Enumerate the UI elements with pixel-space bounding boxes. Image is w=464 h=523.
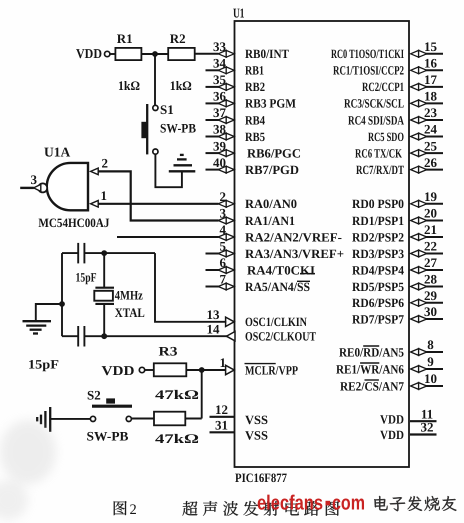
svg-text:RC0 T1OSO/T1CKI: RC0 T1OSO/T1CKI [331, 47, 404, 61]
svg-text:27: 27 [424, 255, 438, 270]
svg-text:elecfans: elecfans [257, 491, 323, 514]
wire junction to R4 [201, 370, 203, 419]
pin 25 RC6 TX/CK (right side) [425, 152, 444, 154]
svg-text:U1: U1 [233, 6, 245, 21]
svg-text:RE2/CS/AN7: RE2/CS/AN7 [340, 379, 405, 393]
wire OSC1 net to pin13 [155, 253, 226, 322]
ground bar2 [44, 411, 46, 428]
wire rail to C1 [62, 252, 78, 254]
VDD terminal circle bottom [139, 367, 144, 372]
wire [95, 287, 114, 289]
overline CS (RE2) [365, 379, 379, 381]
pin 21 RD2/PSP2 (right side) [425, 236, 444, 238]
wire [103, 253, 105, 287]
svg-text:23: 23 [424, 105, 438, 120]
svg-text:9: 9 [427, 354, 434, 369]
scan smudge bottom-left [0, 420, 56, 484]
overline MCLR (pin1) [245, 363, 276, 365]
pin 27 RD4/PSP4 (right side) [425, 269, 444, 271]
pin 35 RB2 (left side) [206, 86, 220, 88]
ground bar1 [169, 170, 196, 172]
pin 3 RA1/AN1 (left side) [218, 217, 226, 224]
pin 18 RC3/SCK/SCL (right side) [425, 102, 444, 104]
pin 16 RC1/T1OSI/CCP2 (right side) [425, 69, 444, 71]
pin 24 RC5 SDO (right side) [425, 136, 444, 138]
svg-text:RC4 SDI/SDA: RC4 SDI/SDA [348, 113, 405, 127]
svg-text:2: 2 [220, 189, 227, 204]
resistor R1 [115, 48, 141, 60]
terminal circle [153, 149, 158, 154]
svg-text:VDD: VDD [380, 413, 404, 427]
svg-text:RD3/PSP3: RD3/PSP3 [352, 247, 404, 261]
svg-text:1: 1 [101, 188, 108, 203]
svg-text:RD2/PSP2: RD2/PSP2 [352, 230, 404, 244]
svg-text:RB6/PGC: RB6/PGC [247, 146, 301, 160]
svg-text:7: 7 [220, 272, 227, 287]
svg-text:S1: S1 [160, 102, 174, 117]
NAND gate U1A body [47, 163, 88, 210]
pin 39 RB6/PGC (left side) [206, 152, 220, 154]
wire R3 to pin1 [186, 369, 226, 371]
svg-text:12: 12 [215, 402, 228, 417]
svg-text:RC2/CCP1: RC2/CCP1 [362, 80, 404, 94]
pin 1 MCLR/VPP (left side) [226, 365, 235, 374]
svg-text:R3: R3 [159, 344, 179, 359]
svg-text:28: 28 [424, 272, 438, 287]
svg-text:XTAL: XTAL [115, 305, 145, 320]
svg-text:RD6/PSP6: RD6/PSP6 [352, 296, 404, 310]
svg-text:RC6 TX/CK: RC6 TX/CK [355, 146, 402, 160]
svg-text:25: 25 [424, 138, 438, 153]
svg-text:OSC1/CLKIN: OSC1/CLKIN [245, 315, 307, 329]
wire [146, 104, 148, 154]
switch S2 button [106, 398, 115, 403]
svg-text:13: 13 [207, 307, 221, 322]
pin 8 RE0/RD/AN5 (right side) [425, 351, 444, 353]
svg-text:29: 29 [424, 288, 438, 303]
pin 37 RB4 (left side) [206, 119, 220, 121]
wire C1 to OSC1 net [84, 252, 155, 254]
svg-text:18: 18 [424, 89, 438, 104]
svg-text:RD7/PSP7: RD7/PSP7 [352, 312, 405, 326]
svg-text:34: 34 [213, 56, 227, 71]
resistor R3 [154, 363, 187, 376]
wire junction to S1 [154, 54, 156, 105]
svg-text:3: 3 [31, 172, 38, 187]
U1A output bubble [38, 183, 47, 192]
svg-text:4: 4 [220, 222, 227, 237]
svg-text:RE0/RD/AN5: RE0/RD/AN5 [339, 345, 404, 359]
svg-text:MC54HC00AJ: MC54HC00AJ [38, 216, 110, 230]
svg-text:VDD: VDD [380, 428, 404, 442]
wire U1A pin2 to IC RA1 [98, 171, 218, 220]
pin 31 VSS (left side) [210, 431, 235, 433]
pin 30 RD7/PSP7 (right side) [425, 318, 444, 320]
pin 5 RA3/AN3/VREF+ (left side) [206, 253, 220, 255]
pin 36 RB3 PGM (left side) [206, 102, 220, 104]
wire [92, 405, 132, 408]
svg-text:RA3/AN3/VREF+: RA3/AN3/VREF+ [245, 247, 344, 261]
pin 28 RD5/PSP5 (right side) [425, 286, 444, 288]
wire [141, 53, 168, 55]
svg-text:RC1/T1OSI/CCP2: RC1/T1OSI/CCP2 [333, 64, 404, 78]
ground bar3 [40, 415, 42, 425]
IC U1 PIC16F877 body [235, 21, 410, 467]
svg-text:RB7/PGD: RB7/PGD [245, 163, 299, 177]
junction C2/XTAL bottom [101, 333, 107, 339]
terminal circle [126, 416, 131, 421]
crystal Y1 body 4MHz [94, 291, 113, 301]
svg-text:38: 38 [213, 122, 227, 137]
svg-text:1kΩ: 1kΩ [170, 78, 192, 93]
wire [83, 243, 85, 264]
svg-text:36: 36 [213, 89, 227, 104]
ground bar1 [49, 407, 51, 432]
svg-text:14: 14 [207, 321, 221, 336]
svg-text:OSC2/CLKOUT: OSC2/CLKOUT [245, 330, 316, 344]
junction rail/ground [59, 301, 65, 307]
svg-text:35: 35 [213, 72, 227, 87]
svg-text:16: 16 [424, 56, 438, 71]
svg-text:RC5 SDO: RC5 SDO [368, 130, 404, 144]
ground bar3 [30, 329, 42, 331]
pin 34 RB1 (left side) [206, 69, 220, 71]
svg-text:RD4/PSP4: RD4/PSP4 [352, 263, 405, 277]
svg-text:R2: R2 [170, 31, 186, 46]
pin 14 OSC2/CLKOUT (left side) [226, 332, 235, 341]
svg-text:SW-PB: SW-PB [87, 429, 129, 444]
wire R4 to junction [185, 418, 201, 420]
ground bar4 [33, 332, 38, 334]
svg-text:5: 5 [220, 239, 227, 254]
svg-text:RB5: RB5 [245, 130, 265, 144]
pin 40 RB7/PGD (left side) [206, 169, 220, 171]
wire [77, 243, 79, 264]
resistor R2 [168, 48, 195, 60]
svg-text:1: 1 [220, 355, 227, 370]
U1A input pin 2 arrowhead [91, 168, 99, 175]
overline WR (RE1) [360, 362, 379, 364]
pin 22 RD3/PSP3 (right side) [425, 253, 444, 255]
svg-text:40: 40 [213, 155, 226, 170]
pin 17 RC2/CCP1 (right side) [425, 86, 444, 88]
wire [95, 303, 114, 305]
svg-text:33: 33 [213, 39, 227, 54]
wire [20, 187, 34, 189]
ground bar1 [23, 320, 52, 322]
wire rail to ground [36, 304, 62, 320]
junction R1/R2/S1 [152, 51, 158, 57]
pin 32 VDD (right side) [410, 433, 437, 435]
svg-text:47kΩ: 47kΩ [155, 387, 199, 402]
svg-text:RE1/WR/AN6: RE1/WR/AN6 [336, 362, 404, 376]
wire ground to S2 [51, 418, 90, 420]
junction C1/XTAL top [101, 250, 107, 256]
caption: 图 2 超声波发射电路图 [114, 501, 127, 515]
overline RD (RE0) [363, 345, 379, 347]
pin 4 RA2/AN2/VREF- (left side) [218, 234, 226, 241]
pin 7 RA5/AN4/SS (left side) [206, 286, 220, 288]
pin 38 RB5 (left side) [206, 136, 220, 138]
pin 13 OSC1/CLKIN (left side) [226, 317, 235, 326]
svg-text:S2: S2 [87, 388, 101, 403]
pin 23 RC4 SDI/SDA (right side) [425, 119, 444, 121]
svg-text:47kΩ: 47kΩ [155, 431, 199, 446]
svg-text:20: 20 [424, 206, 437, 221]
svg-text:U1A: U1A [44, 145, 70, 160]
svg-text:3: 3 [220, 206, 227, 221]
svg-text:RC7/RX/DT: RC7/RX/DT [356, 163, 404, 177]
svg-text:RB3 PGM: RB3 PGM [245, 97, 296, 111]
pin 26 RC7/RX/DT (right side) [425, 169, 444, 171]
svg-text:VDD: VDD [102, 363, 135, 378]
svg-text:VDD: VDD [76, 46, 102, 61]
ground bar2 [26, 324, 46, 326]
svg-text:37: 37 [213, 105, 227, 120]
svg-text:RD5/PSP5: RD5/PSP5 [352, 280, 404, 294]
svg-text:2: 2 [102, 156, 109, 171]
wire S1 to ground [155, 154, 182, 187]
svg-text:8: 8 [427, 337, 434, 352]
svg-text:MCLR/VPP: MCLR/VPP [245, 363, 298, 377]
pin 19 RD0 PSP0 (right side) [425, 203, 444, 205]
svg-text:com: com [332, 491, 365, 514]
svg-text:VSS: VSS [245, 429, 268, 443]
svg-text:39: 39 [213, 138, 227, 153]
pin 20 RD1/PSP1 (right side) [425, 220, 444, 222]
terminal circle [90, 416, 95, 421]
ground bar4 [36, 417, 38, 421]
svg-text:15pF: 15pF [76, 271, 97, 285]
svg-text:24: 24 [424, 122, 438, 137]
wire S2 to R4 [131, 418, 154, 420]
wire U1A pin1 to IC RA0 [98, 203, 218, 205]
wire RA2 stub long [117, 236, 219, 238]
wire [83, 326, 85, 347]
svg-text:21: 21 [424, 222, 437, 237]
svg-text:15pF: 15pF [28, 358, 59, 372]
svg-text:30: 30 [424, 304, 437, 319]
terminal circle [153, 105, 158, 110]
svg-text:15: 15 [424, 39, 438, 54]
wire [103, 304, 105, 336]
svg-text:RA0/AN0: RA0/AN0 [245, 197, 297, 211]
svg-text:RB0/INT: RB0/INT [245, 47, 289, 61]
svg-text:RA1/AN1: RA1/AN1 [245, 214, 295, 228]
svg-text:17: 17 [424, 72, 438, 87]
svg-text:SW-PB: SW-PB [160, 120, 196, 135]
svg-text:10: 10 [424, 371, 437, 386]
ground bar2 [174, 164, 193, 166]
svg-text:6: 6 [220, 255, 227, 270]
wire C2 to pin14 OSC2 [84, 335, 227, 337]
svg-text:26: 26 [424, 155, 438, 170]
VDD terminal circle [105, 51, 110, 56]
watermark 电子发烧友 [374, 496, 387, 510]
svg-text:32: 32 [421, 420, 434, 435]
svg-text:RA4/T0CKI: RA4/T0CKI [247, 263, 315, 277]
wire R2 to pin33 [195, 53, 219, 55]
wire rail to C2 [62, 335, 78, 337]
svg-text:RA2/AN2/VREF-: RA2/AN2/VREF- [245, 230, 342, 244]
pin 6 RA4/T0CKI (left side) [206, 269, 220, 271]
svg-text:4MHz: 4MHz [115, 287, 143, 302]
svg-text:19: 19 [424, 189, 438, 204]
svg-text:RB1: RB1 [245, 64, 264, 78]
junction R3/R4 [199, 367, 205, 373]
wire rail vertical [61, 253, 63, 336]
svg-text:1kΩ: 1kΩ [118, 78, 140, 93]
pin 10 RE2/CS/AN7 (right side) [425, 385, 444, 387]
svg-text:RB2: RB2 [245, 80, 265, 94]
pin 12 VSS (left side) [210, 416, 235, 418]
pin 9 RE1/WR/AN6 (right side) [425, 368, 444, 370]
switch S1 button [141, 122, 147, 138]
svg-text:RC3/SCK/SCL: RC3/SCK/SCL [344, 97, 404, 111]
svg-text:PIC16F877: PIC16F877 [235, 471, 287, 485]
pin 29 RD6/PSP6 (right side) [425, 302, 444, 304]
overline SS (RA5) [297, 280, 310, 282]
svg-text:31: 31 [215, 418, 228, 433]
pin 11 VDD (right side) [410, 420, 437, 422]
U1A output arrowhead [34, 184, 41, 191]
svg-text:2: 2 [130, 502, 137, 518]
svg-text:RD1/PSP1: RD1/PSP1 [352, 214, 404, 228]
pin 2 RA0/AN0 (left side) [218, 200, 226, 207]
pin 15 RC0 T1OSO/T1CKI (right side) [425, 53, 444, 55]
svg-text:RD0 PSP0: RD0 PSP0 [352, 197, 404, 211]
svg-text:22: 22 [424, 239, 437, 254]
ground bar3 [177, 158, 187, 160]
svg-text:VSS: VSS [245, 413, 268, 427]
wire [110, 53, 116, 55]
pin 33 RB0/INT (left side) [218, 50, 226, 57]
wire [145, 369, 154, 371]
U1A input pin 1 arrowhead [91, 201, 99, 208]
underline KI (RA4) [300, 273, 315, 275]
svg-text:RB4: RB4 [245, 113, 266, 127]
wire [77, 326, 79, 347]
resistor R4 47k [154, 412, 185, 426]
svg-text:R1: R1 [117, 31, 133, 46]
ground bar4 [180, 154, 184, 156]
